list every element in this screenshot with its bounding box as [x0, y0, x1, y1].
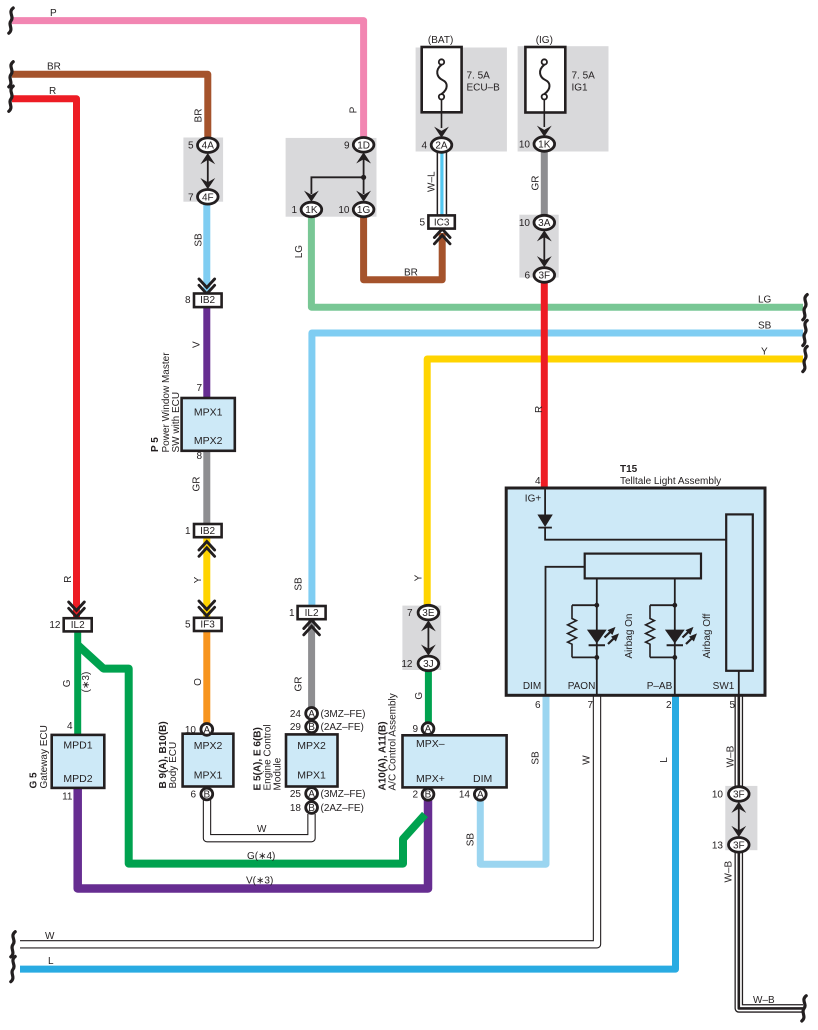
connector IL2 left — [64, 618, 92, 631]
svg-text:R: R — [63, 576, 74, 583]
chevron BR under IC3 — [434, 229, 450, 244]
svg-text:Y: Y — [761, 347, 768, 358]
svg-text:IL2: IL2 — [71, 620, 85, 631]
svg-text:25: 25 — [290, 789, 302, 800]
connector 2A — [431, 138, 452, 153]
wire R red left — [12, 99, 77, 618]
svg-text:3F: 3F — [538, 271, 550, 282]
T15 SW1 line — [738, 671, 740, 694]
wire W white Body ECU MPX1 to Engine MPX1 — [207, 799, 312, 838]
svg-text:7: 7 — [188, 192, 194, 203]
LED Airbag Off — [665, 627, 697, 645]
wire R red 3F to T15 IG+ — [541, 281, 548, 489]
wire GR grey P5 to IB2 — [203, 450, 210, 525]
svg-text:SB: SB — [194, 233, 205, 247]
connector 3F lower top — [729, 787, 750, 802]
wire Y yellow IB2 to IF3 — [203, 537, 210, 618]
svg-text:BR: BR — [194, 109, 205, 123]
wire SB light blue T15 DIM to A/C DIM — [480, 695, 546, 864]
wire SB bus to right edge and down to IL2 — [312, 333, 803, 606]
svg-text:10: 10 — [185, 725, 197, 736]
svg-text:A: A — [425, 724, 432, 735]
svg-text:W: W — [582, 755, 593, 765]
svg-text:R: R — [49, 86, 56, 97]
chevron Y into IF3 — [199, 601, 215, 616]
svg-text:GR: GR — [294, 677, 305, 692]
svg-text:BR: BR — [404, 268, 418, 279]
resistor R2 Airbag Off branch — [646, 603, 678, 660]
svg-text:SW with ECU: SW with ECU — [171, 392, 182, 453]
svg-text:W: W — [45, 931, 55, 942]
wire V violet Gateway MPD2 V(*3) run to A/C MPX+ — [78, 787, 428, 889]
svg-text:G: G — [62, 679, 73, 687]
break squiggle Y right — [803, 346, 807, 371]
svg-text:B: B — [203, 789, 210, 800]
svg-text:G: G — [414, 692, 425, 700]
svg-text:(3MZ–FE): (3MZ–FE) — [321, 709, 366, 720]
pin 29-B Engine — [306, 721, 318, 733]
svg-text:1K: 1K — [305, 205, 318, 216]
svg-text:5: 5 — [188, 141, 194, 152]
svg-text:GR: GR — [192, 477, 203, 492]
svg-text:SB: SB — [531, 751, 542, 765]
svg-text:3E: 3E — [422, 608, 435, 619]
connector 3E — [418, 605, 439, 620]
svg-text:P: P — [349, 106, 360, 113]
svg-text:5: 5 — [729, 700, 735, 711]
svg-text:IG1: IG1 — [572, 83, 589, 94]
arrows 3F/3F lower pair — [731, 802, 746, 837]
pin 14-A A/C — [474, 788, 486, 800]
fuse IG1 7.5A symbol — [525, 47, 565, 137]
svg-text:A: A — [308, 709, 315, 720]
svg-text:7. 5A: 7. 5A — [467, 71, 491, 82]
switch SW1 rect — [726, 514, 753, 670]
svg-text:4: 4 — [535, 476, 541, 487]
svg-text:5: 5 — [185, 620, 191, 631]
arrows 4A/4F pair — [200, 153, 215, 189]
svg-text:1D: 1D — [357, 140, 370, 151]
ECU E5/E6 Engine Control Module box — [286, 734, 338, 786]
break squiggle SB right — [803, 320, 807, 345]
chevron R into IL2 — [69, 602, 85, 617]
svg-text:6: 6 — [190, 789, 196, 800]
svg-text:DIM: DIM — [473, 773, 492, 785]
pin 9-A A/C — [422, 723, 434, 735]
resistor R1 Airbag On branch — [568, 603, 600, 660]
svg-text:GR: GR — [531, 176, 542, 191]
svg-text:8: 8 — [185, 295, 191, 306]
svg-text:Y: Y — [193, 576, 204, 583]
svg-text:(BAT): (BAT) — [428, 35, 453, 46]
svg-text:2A: 2A — [435, 141, 448, 152]
chevron GR under IL2 — [304, 620, 320, 635]
ECU G5 Gateway box — [52, 735, 105, 788]
svg-text:3A: 3A — [538, 218, 551, 229]
connector 3A — [534, 215, 555, 230]
pin 18-B Engine — [306, 802, 318, 814]
wire BR 1G to IC3 — [364, 214, 443, 280]
break squiggle R left — [9, 86, 13, 111]
svg-text:Airbag Off: Airbag Off — [702, 613, 713, 658]
svg-text:4A: 4A — [202, 141, 215, 152]
wire Y bus to right edge and down to 3E — [427, 359, 803, 606]
break squiggle P left — [9, 8, 13, 33]
svg-text:G(∗4): G(∗4) — [247, 851, 275, 862]
svg-text:Body ECU: Body ECU — [168, 742, 179, 789]
svg-text:2: 2 — [412, 790, 418, 801]
wire W white PAON to left edge — [20, 695, 597, 944]
node junction dot — [361, 175, 366, 180]
svg-text:11: 11 — [62, 792, 73, 803]
svg-text:LG: LG — [294, 245, 305, 259]
connector IL2 mid — [298, 606, 326, 619]
svg-text:SB: SB — [758, 321, 772, 332]
break squiggle LG right — [803, 295, 807, 320]
connector 3J — [418, 656, 439, 671]
svg-text:3J: 3J — [423, 659, 434, 670]
pin 6-B Body ECU — [201, 788, 213, 800]
svg-text:Module: Module — [273, 757, 284, 790]
svg-text:Gateway ECU: Gateway ECU — [39, 725, 50, 788]
svg-text:(3MZ–FE): (3MZ–FE) — [321, 789, 366, 800]
svg-text:7: 7 — [587, 700, 593, 711]
svg-text:IB2: IB2 — [200, 526, 215, 537]
svg-text:1G: 1G — [357, 205, 371, 216]
connector 4A — [198, 138, 219, 153]
pin 2-B A/C — [422, 788, 434, 800]
svg-text:ECU–B: ECU–B — [467, 83, 501, 94]
arrows 3A/3F pair — [537, 230, 552, 267]
svg-text:IF3: IF3 — [200, 620, 215, 631]
svg-text:L: L — [48, 956, 54, 967]
svg-text:G 5: G 5 — [29, 772, 40, 789]
svg-text:IB2: IB2 — [200, 295, 215, 306]
diode D1 IG+ — [537, 515, 552, 528]
connector IC3 — [428, 215, 454, 228]
wire GR grey IL2 to Engine ECU MPX2 — [308, 619, 315, 708]
wire O orange IF3 to Body ECU — [203, 630, 210, 723]
svg-text:10: 10 — [519, 140, 531, 151]
connector IB2 upper — [194, 294, 222, 308]
svg-text:LG: LG — [758, 295, 772, 306]
svg-text:W–B: W–B — [724, 860, 735, 882]
svg-text:Airbag On: Airbag On — [624, 613, 635, 658]
wire BR brown top — [12, 74, 208, 144]
wire G green IL2 to Gateway MPD1 — [74, 630, 81, 734]
svg-text:7: 7 — [196, 383, 202, 394]
T15 DIM line — [546, 567, 585, 694]
svg-text:(∗3): (∗3) — [81, 672, 92, 693]
svg-text:6: 6 — [524, 271, 530, 282]
break squiggle BR left — [9, 62, 13, 87]
svg-text:1: 1 — [289, 608, 295, 619]
svg-text:W–B: W–B — [753, 995, 775, 1006]
svg-text:13: 13 — [712, 840, 724, 851]
svg-text:9: 9 — [344, 140, 350, 151]
svg-text:5: 5 — [419, 217, 425, 228]
svg-text:4: 4 — [421, 141, 427, 152]
svg-text:10: 10 — [338, 205, 350, 216]
pin 24-A Engine — [306, 708, 318, 720]
svg-text:10: 10 — [519, 218, 531, 229]
svg-text:A: A — [203, 725, 210, 736]
svg-text:14: 14 — [459, 790, 471, 801]
svg-text:(2AZ–FE): (2AZ–FE) — [321, 722, 364, 733]
svg-text:Y: Y — [414, 574, 425, 581]
wire V violet IB2 to P5 — [203, 305, 210, 398]
wire W-B white-black T15 SW1 to 3F — [734, 695, 743, 788]
connector IB2 lower — [194, 524, 222, 537]
svg-text:1: 1 — [291, 205, 297, 216]
svg-text:A/C Control Assembly: A/C Control Assembly — [388, 693, 399, 790]
svg-text:B: B — [308, 803, 315, 814]
svg-text:A: A — [477, 790, 484, 801]
svg-text:P 5: P 5 — [150, 437, 161, 452]
connector 1K fuse IG — [534, 137, 555, 152]
A10/A11 A/C Control Assembly box — [403, 735, 507, 787]
svg-text:12: 12 — [49, 620, 61, 631]
T15 resistor bar rect — [585, 554, 701, 579]
connector 3F lower bottom — [729, 838, 750, 853]
ECU P5 Power Window Master box — [182, 398, 235, 451]
connector 1D — [353, 138, 374, 153]
svg-text:W: W — [257, 824, 267, 835]
connector shading box 3E/3J — [402, 606, 441, 670]
svg-text:3F: 3F — [733, 790, 745, 801]
svg-text:SB: SB — [466, 833, 477, 847]
wire LG light green 1K to right edge — [311, 214, 803, 307]
connector 4F — [198, 190, 219, 205]
wire W-L white-blue 2A to IC3 — [437, 150, 448, 216]
svg-text:MPX2: MPX2 — [194, 740, 223, 752]
ECU B9/B10 Body ECU box — [183, 734, 234, 787]
T15 P-AB line — [674, 578, 676, 694]
svg-text:1K: 1K — [538, 140, 551, 151]
chevron SB into IB2 — [199, 279, 215, 294]
svg-text:3F: 3F — [733, 840, 745, 851]
svg-text:4: 4 — [67, 721, 73, 732]
svg-text:O: O — [193, 678, 204, 686]
svg-text:V(∗3): V(∗3) — [246, 876, 273, 887]
T15 PAON line — [596, 578, 598, 694]
connector shading box fuse IG1 — [518, 46, 609, 151]
connector IF3 — [194, 618, 222, 631]
svg-text:29: 29 — [290, 722, 302, 733]
connector shading box 1D/1K/1G — [286, 138, 377, 217]
connector 1G — [353, 202, 374, 217]
wire P pink bus top — [12, 21, 364, 144]
svg-text:W–L: W–L — [427, 171, 438, 192]
svg-text:MPX1: MPX1 — [194, 770, 223, 782]
wire G green 3J to A/C pin A — [425, 668, 432, 723]
svg-text:V: V — [192, 341, 203, 348]
svg-text:1: 1 — [185, 526, 191, 537]
svg-text:MPX+: MPX+ — [416, 773, 445, 785]
LED Airbag On — [587, 627, 619, 645]
svg-text:T15: T15 — [620, 464, 638, 475]
svg-text:MPD2: MPD2 — [63, 773, 92, 785]
svg-text:R: R — [534, 406, 545, 413]
connector shading box 3A/3F — [519, 215, 558, 278]
svg-text:MPX2: MPX2 — [297, 740, 326, 752]
wire L blue P-AB to left edge — [20, 695, 676, 969]
break squiggle W left — [11, 932, 15, 957]
svg-text:MPX1: MPX1 — [297, 770, 326, 782]
svg-text:DIM: DIM — [523, 681, 541, 692]
break squiggle W-B right — [802, 996, 806, 1021]
svg-text:8: 8 — [196, 451, 202, 462]
svg-text:SB: SB — [294, 577, 305, 591]
svg-text:PAON: PAON — [568, 681, 596, 692]
pin 10-A Body ECU — [201, 724, 213, 736]
svg-text:MPX1: MPX1 — [194, 407, 223, 419]
svg-text:4F: 4F — [202, 192, 214, 203]
svg-text:IL2: IL2 — [305, 608, 319, 619]
svg-text:7. 5A: 7. 5A — [572, 71, 596, 82]
svg-text:6: 6 — [535, 700, 541, 711]
svg-text:Telltale Light Assembly: Telltale Light Assembly — [620, 476, 721, 487]
connector shading box fuse ECU-B — [416, 48, 507, 152]
svg-text:9: 9 — [412, 724, 418, 735]
svg-text:L: L — [659, 757, 670, 763]
break squiggle L left — [11, 957, 15, 982]
svg-text:A: A — [308, 789, 315, 800]
pin 25-A Engine — [306, 788, 318, 800]
T15 Telltale Light Assembly box — [506, 488, 765, 695]
chevron Y out of IB2 — [199, 542, 215, 557]
svg-text:2: 2 — [666, 700, 672, 711]
svg-text:24: 24 — [290, 709, 302, 720]
svg-text:7: 7 — [407, 608, 413, 619]
wire G green branch G(*4) run to A/C MPX+ — [78, 645, 425, 864]
connector shading box 4A/4F — [183, 138, 223, 202]
connector 1K — [301, 202, 322, 217]
arrows 1D/1K/1G group — [304, 152, 371, 202]
fuse ECU-B 7.5A symbol — [422, 47, 462, 138]
svg-text:P: P — [50, 8, 57, 19]
svg-text:MPD1: MPD1 — [63, 740, 92, 752]
svg-text:IG+: IG+ — [525, 494, 542, 505]
svg-text:B: B — [308, 722, 315, 733]
svg-text:(IG): (IG) — [536, 35, 553, 46]
T15 IG+ line — [545, 489, 727, 540]
svg-text:W–B: W–B — [726, 745, 737, 767]
svg-text:10: 10 — [712, 790, 724, 801]
svg-text:12: 12 — [401, 659, 413, 670]
svg-text:BR: BR — [47, 62, 61, 73]
arrows 3E/3J pair — [421, 620, 436, 656]
connector 3F — [534, 268, 555, 283]
svg-text:MPX–: MPX– — [416, 738, 445, 750]
svg-text:MPX2: MPX2 — [194, 435, 223, 447]
wire GR grey IG1 1K to 3A — [541, 150, 548, 217]
svg-text:(2AZ–FE): (2AZ–FE) — [321, 803, 364, 814]
svg-text:SW1: SW1 — [713, 681, 735, 692]
wire SB 4F to IB2 — [203, 202, 210, 292]
svg-text:P–AB: P–AB — [647, 681, 673, 692]
svg-text:IC3: IC3 — [434, 217, 450, 228]
svg-text:B: B — [425, 790, 432, 801]
wire W-B white-black 3F to right edge — [739, 851, 803, 1008]
svg-text:18: 18 — [290, 803, 302, 814]
connector shading box 3F/3F lower — [725, 786, 757, 850]
